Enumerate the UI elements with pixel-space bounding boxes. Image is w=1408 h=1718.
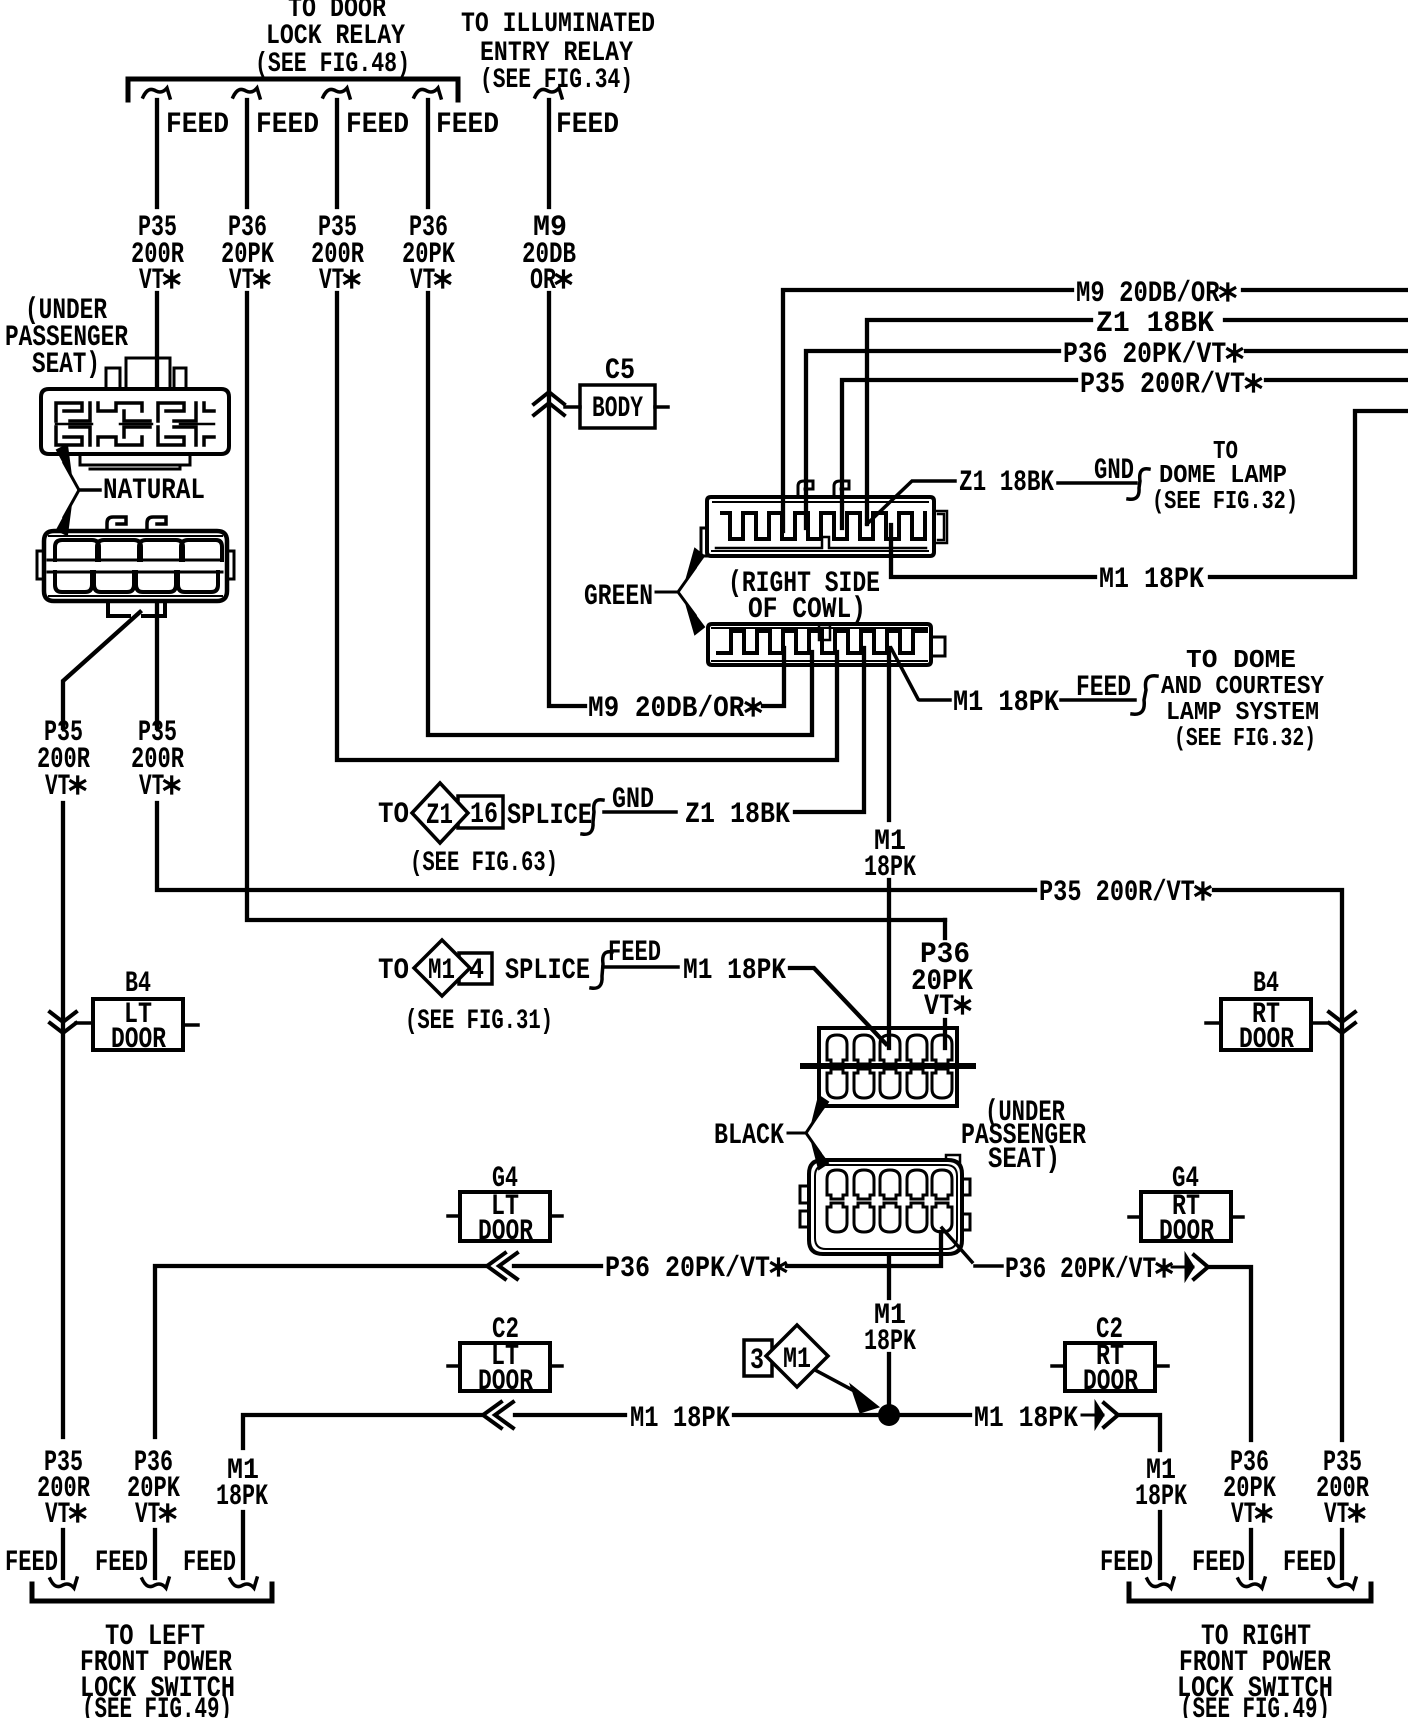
- pointer arrows BLACK: [788, 1096, 828, 1169]
- wire P36 feed 4 upper: [426, 100, 430, 207]
- terminal hook bottom right 3: [1329, 1578, 1356, 1588]
- svg-text:M1 18PK: M1 18PK: [683, 954, 786, 988]
- svg-text:GND: GND: [1094, 454, 1134, 488]
- svg-text:FEED: FEED: [346, 108, 409, 142]
- svg-text:TO ILLUMINATED: TO ILLUMINATED: [461, 9, 655, 40]
- connector C2 RT DOOR box: [1052, 1340, 1168, 1399]
- svg-text:Z1 18BK: Z1 18BK: [1096, 307, 1214, 341]
- connector C2 LT DOOR box: [448, 1340, 562, 1399]
- svg-text:DOOR: DOOR: [478, 1365, 533, 1399]
- connector G4 RT DOOR box: [1129, 1190, 1243, 1249]
- label M1 18PK mid: [864, 825, 916, 885]
- wire M1 pointer diagonal from cowl lower: [891, 648, 950, 700]
- svg-text:FEED: FEED: [166, 108, 229, 142]
- svg-text:FEED: FEED: [5, 1546, 58, 1580]
- wire P36 right row down right side: [1207, 1267, 1251, 1440]
- label (RIGHT SIDE OF COWL): [728, 567, 880, 627]
- wire M9 feed upper: [547, 100, 551, 207]
- pointer arrows GREEN: [656, 549, 704, 634]
- svg-text:P35 200R/VT: P35 200R/VT: [1039, 876, 1209, 910]
- terminal hook on cowl P36: [798, 481, 813, 497]
- svg-text:18PK: 18PK: [1135, 1480, 1187, 1514]
- label M1 18PK above dot: [864, 1299, 916, 1359]
- svg-text:M1 18PK: M1 18PK: [974, 1402, 1078, 1436]
- connector natural under-seat top tabs: [106, 358, 186, 389]
- label P35 200R VT* col3: [311, 211, 364, 298]
- svg-text:18PK: 18PK: [864, 1325, 916, 1359]
- svg-text:M1: M1: [783, 1343, 811, 1377]
- connector lock-switch plug terminals row2: [55, 572, 218, 592]
- wire P36 mid drop: [943, 920, 947, 938]
- connector seat black upper body: [803, 1028, 973, 1106]
- svg-text:(SEE FIG.31): (SEE FIG.31): [405, 1006, 553, 1037]
- connector cowl green upper bottom rail: [716, 537, 926, 548]
- svg-text:18PK: 18PK: [216, 1480, 268, 1514]
- svg-text:(SEE FIG.48): (SEE FIG.48): [255, 49, 410, 80]
- wire M9 20DB/OR* top right row: [783, 290, 1408, 531]
- wire M1 through cowl to seat connector upper: [887, 648, 891, 1048]
- wire M1 right row: [899, 1413, 970, 1417]
- wire P35 second drop from plug: [155, 605, 159, 728]
- svg-text:FEED: FEED: [256, 108, 319, 142]
- label TO DOME LAMP (SEE FIG.32): [1152, 436, 1298, 516]
- wire M9 feed lower to corner y706: [549, 293, 585, 706]
- wire P36 feed 2 upper: [245, 100, 249, 207]
- label P35 200R VT* second drop: [131, 716, 184, 804]
- svg-text:M1 18PK: M1 18PK: [630, 1402, 730, 1436]
- wire P36 mid drop to seat connector: [943, 1020, 947, 1048]
- wire P35 left drop to bottom feed: [61, 803, 65, 1437]
- connector symbol chevrons on M9 wire at C5: [534, 392, 564, 415]
- svg-text:(SEE FIG.32): (SEE FIG.32): [1152, 486, 1298, 516]
- svg-text:TO: TO: [378, 798, 409, 832]
- svg-text:M1 18PK: M1 18PK: [1099, 563, 1204, 597]
- svg-text:M9 20DB/OR: M9 20DB/OR: [588, 692, 760, 726]
- connector seat black lower terminals row1: [827, 1170, 952, 1199]
- wire P35 feed 3 lower, to cowl connector via y760: [337, 293, 837, 760]
- connector seat black upper terminals row1: [827, 1035, 952, 1064]
- wire 3M1 diagonal pointer with arrowhead: [817, 1371, 879, 1413]
- connector natural bottom lip: [80, 456, 190, 469]
- connector lock-switch plug top hooks: [107, 517, 166, 531]
- connector lock-switch plug bottom neck: [108, 601, 165, 616]
- svg-text:DOOR: DOOR: [1083, 1365, 1138, 1399]
- label P36 20PK VT* col2: [221, 211, 274, 298]
- wire M1 18PK right edge link: [891, 411, 1408, 577]
- svg-text:P36 20PK/VT: P36 20PK/VT: [1005, 1253, 1170, 1287]
- label TO RIGHT FRONT POWER LOCK SWITCH: [1177, 1620, 1333, 1718]
- wire M1 left row: [243, 1415, 878, 1448]
- svg-text:DOOR: DOOR: [1239, 1023, 1294, 1057]
- svg-text:FEED: FEED: [95, 1546, 148, 1580]
- label P36 20PK VT* mid: [911, 938, 973, 1024]
- brace courtesy lamp: [1132, 676, 1157, 714]
- wire Z1 from cowl lower to splice row: [795, 648, 864, 812]
- wire M1 bottom right stub: [1158, 1512, 1162, 1578]
- terminal hook feed 4: [414, 88, 441, 98]
- svg-text:LOCK RELAY: LOCK RELAY: [266, 21, 405, 52]
- connector seat black lower terminals row2: [827, 1203, 952, 1232]
- wire M9 to cowl lower: [763, 648, 784, 706]
- brace Z1 splice: [582, 800, 603, 835]
- svg-text:DOOR: DOOR: [1159, 1215, 1214, 1249]
- wire FEED underline M1 splice: [603, 965, 678, 969]
- splice symbol 3 M1 diamond: [744, 1325, 828, 1387]
- svg-text:Z1 18BK: Z1 18BK: [959, 466, 1054, 500]
- wire FEED underline dome: [1061, 698, 1135, 702]
- svg-text:DOOR: DOOR: [111, 1023, 166, 1057]
- wire: door lock relay bracket: [128, 79, 458, 100]
- svg-text:BODY: BODY: [592, 392, 643, 426]
- svg-text:(SEE FIG.63): (SEE FIG.63): [410, 848, 558, 879]
- wire Z1 pointer diagonal into cowl: [867, 481, 955, 524]
- wire P36 20PK/VT* top right row: [806, 351, 1408, 528]
- svg-text:OF COWL): OF COWL): [748, 593, 866, 627]
- svg-text:B4: B4: [1253, 967, 1279, 1001]
- junction dot M1: [878, 1404, 900, 1426]
- svg-text:FEED: FEED: [556, 108, 619, 142]
- svg-text:NATURAL: NATURAL: [103, 474, 205, 508]
- wire GND underline splice: [604, 810, 676, 814]
- wire M1 right row down: [1117, 1415, 1160, 1450]
- connector B4 LT DOOR box: [76, 998, 198, 1057]
- connector lock-switch plug body: [37, 531, 234, 601]
- terminal hook feed 1: [143, 88, 170, 98]
- svg-text:P35 200R/VT: P35 200R/VT: [1080, 368, 1260, 402]
- label P36 20PK VT* bottom left col2: [127, 1446, 180, 1532]
- connector lock-switch plug terminals row1: [55, 540, 222, 560]
- svg-text:TO: TO: [378, 954, 409, 988]
- svg-text:FEED: FEED: [1192, 1546, 1245, 1580]
- splice symbol M1 4: [414, 940, 492, 996]
- svg-text:FEED: FEED: [608, 936, 661, 970]
- wire P35 feed 1 lower: [155, 293, 159, 385]
- svg-text:DOOR: DOOR: [478, 1215, 533, 1249]
- svg-text:SEAT): SEAT): [32, 348, 100, 382]
- svg-text:BLACK: BLACK: [714, 1119, 784, 1153]
- label P35 200R VT* col1: [131, 211, 184, 298]
- connector cowl green lower comb terminals: [718, 631, 926, 653]
- svg-text:SEAT): SEAT): [988, 1143, 1060, 1177]
- svg-text:SPLICE: SPLICE: [507, 799, 592, 833]
- terminal hook feed 3: [323, 88, 350, 98]
- label P35 200R VT* left drop: [37, 716, 90, 804]
- svg-text:M1 18PK: M1 18PK: [953, 686, 1059, 720]
- connector lock-switch plug mid rails: [48, 560, 222, 572]
- brace M1 splice: [591, 952, 612, 989]
- label (UNDER PASSENGER SEAT) right: [961, 1096, 1086, 1177]
- label P36 20PK VT* bottom right col2: [1223, 1446, 1276, 1532]
- node: TO ILLUMINATED ENTRY RELAY title: [461, 9, 655, 96]
- connector arrow chevrons M1 right row: [1082, 1403, 1118, 1427]
- wire Z1 18BK top right row: [867, 320, 1408, 524]
- wire P35 bottom right stub: [1340, 1530, 1344, 1578]
- wire GND underline to dome lamp: [1058, 481, 1136, 485]
- wire bracket to left front power lock switch: [32, 1584, 272, 1601]
- label P35 200R VT* bottom right col3: [1316, 1446, 1369, 1532]
- connector cowl green upper comb terminals: [722, 513, 925, 539]
- wire M1 splice diagonal to seat connector: [790, 968, 886, 1044]
- wire M1 bottom left stub: [241, 1512, 245, 1578]
- svg-text:M9 20DB/OR: M9 20DB/OR: [1076, 277, 1234, 311]
- label (UNDER PASSENGER SEAT) left: [5, 294, 128, 382]
- svg-text:FEED: FEED: [1100, 1546, 1153, 1580]
- pointer arrows NATURAL: [57, 445, 100, 535]
- wire P35 feed 3 upper: [335, 100, 339, 207]
- wire P35 long line right segment down right side: [1214, 890, 1342, 1440]
- terminal hook feed M9: [535, 88, 562, 98]
- svg-text:4: 4: [469, 954, 484, 988]
- label P35 200R VT* bottom left col1: [37, 1446, 90, 1532]
- svg-text:M1: M1: [428, 954, 455, 988]
- connector seat black upper terminals row2: [827, 1069, 952, 1098]
- wire P36 right row diagonal from seat connector: [942, 1228, 1002, 1266]
- connector G4 LT DOOR box: [448, 1190, 562, 1249]
- svg-text:P36 20PK/VT: P36 20PK/VT: [605, 1252, 785, 1286]
- svg-text:Z1: Z1: [426, 799, 453, 833]
- wire bracket to right front power lock switch: [1129, 1584, 1371, 1601]
- svg-text:B4: B4: [125, 967, 151, 1001]
- connector B4 RT DOOR box: [1206, 998, 1329, 1057]
- connector natural maze terminals row1: [56, 403, 214, 421]
- svg-text:(SEE FIG.49): (SEE FIG.49): [82, 1693, 232, 1718]
- wire P36 left row to seat connector: [155, 1232, 941, 1437]
- connector arrow chevrons P36 right row: [1172, 1255, 1208, 1279]
- connector natural under-seat body: [41, 389, 229, 454]
- connector chevrons P36 left row: [487, 1253, 517, 1279]
- label M1 18PK bottom right col1: [1135, 1454, 1187, 1514]
- svg-text:3: 3: [750, 1344, 764, 1378]
- label M1 18PK bottom left col3: [216, 1454, 268, 1514]
- wire P36 bottom left stub: [153, 1530, 157, 1578]
- svg-text:C5: C5: [605, 354, 635, 388]
- wire P35 second drop to long line y890: [157, 803, 1035, 890]
- terminal hook bottom left 2: [142, 1578, 169, 1588]
- connector cowl green lower body: [708, 624, 945, 665]
- wire P36 feed 2 lower, to y920 corner: [247, 293, 945, 920]
- svg-text:16: 16: [470, 798, 498, 832]
- terminal hook bottom left 3: [230, 1578, 257, 1588]
- wire P35 200R/VT* top right row: [842, 380, 1408, 528]
- svg-text:FEED: FEED: [183, 1546, 236, 1580]
- svg-text:GND: GND: [612, 783, 654, 817]
- terminal hook bottom right 1: [1147, 1578, 1174, 1588]
- connector cowl green upper body: [701, 497, 947, 556]
- connector symbol chevrons on P35 wire at B4 LT: [50, 1012, 76, 1033]
- label TO LEFT FRONT POWER LOCK SWITCH: [80, 1620, 235, 1718]
- connector symbol chevrons on P35 wire at B4 RT: [1329, 1012, 1355, 1033]
- terminal hook bottom left 1: [50, 1578, 77, 1588]
- wire P35 feed 1 upper: [155, 100, 159, 207]
- connector C5 BODY box: [565, 385, 668, 428]
- label TO DOME AND COURTESY LAMP SYSTEM (SEE FIG.32): [1161, 645, 1324, 753]
- connector natural maze terminals row2: [56, 427, 214, 445]
- svg-text:GREEN: GREEN: [584, 580, 653, 614]
- svg-text:P36 20PK/VT: P36 20PK/VT: [1063, 338, 1241, 372]
- wire M1 from seat connector to junction dot: [887, 1258, 891, 1415]
- connector natural maze mid rail: [56, 423, 214, 426]
- wire P36 feed 4 lower, to cowl connector via y735: [428, 293, 812, 735]
- svg-text:FEED: FEED: [1283, 1546, 1336, 1580]
- svg-text:(SEE FIG.32): (SEE FIG.32): [1174, 723, 1316, 753]
- connector chevrons M1 left row: [483, 1402, 513, 1428]
- terminal hook bottom right 2: [1238, 1578, 1265, 1588]
- svg-text:(SEE FIG.49): (SEE FIG.49): [1180, 1693, 1330, 1718]
- svg-text:18PK: 18PK: [864, 851, 916, 885]
- svg-text:SPLICE: SPLICE: [505, 954, 590, 988]
- node: TO DOOR LOCK RELAY title: [255, 0, 410, 80]
- connector seat black lower body: [800, 1155, 970, 1254]
- wire P36 bottom right stub: [1249, 1530, 1253, 1578]
- label M9 20DB OR* col5: [522, 211, 576, 298]
- terminal hook on cowl P35: [834, 481, 849, 497]
- svg-text:FEED: FEED: [1076, 671, 1131, 705]
- label P36 20PK VT* col4: [402, 211, 455, 298]
- svg-text:Z1 18BK: Z1 18BK: [685, 798, 790, 832]
- brace dome lamp: [1128, 469, 1149, 500]
- splice symbol Z1 16: [412, 783, 503, 843]
- terminal hook feed 2: [233, 88, 260, 98]
- wire P35 from plug neck diagonal to left drop: [63, 612, 140, 728]
- svg-text:FEED: FEED: [436, 108, 499, 142]
- wire P35 bottom left stub: [61, 1530, 65, 1578]
